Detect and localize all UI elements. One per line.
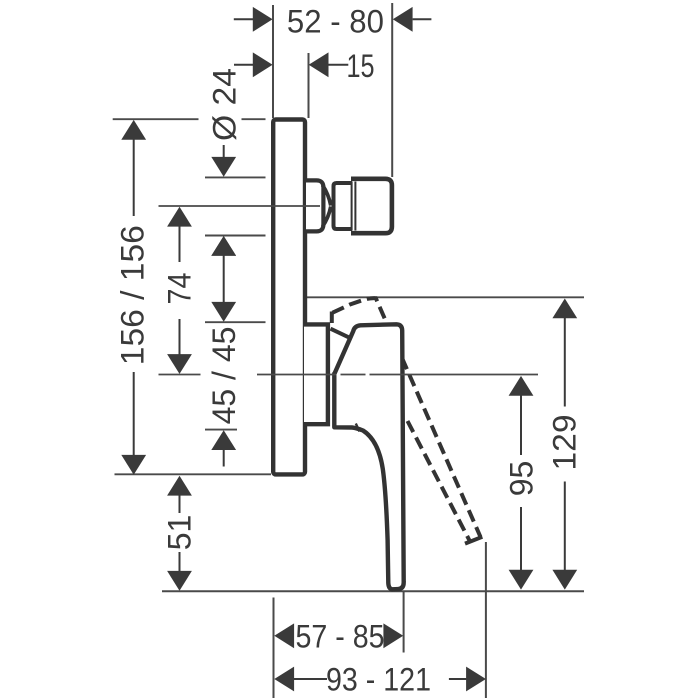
wire: bottom extension handle x=403.6 [403,592,405,653]
svg-text:45 / 45: 45 / 45 [206,327,242,425]
wire: extension line hub bottom y=429.6 [205,429,237,431]
wire: extension line plate front x=308.5 [308,53,310,118]
dimension 57-85 bottom [274,618,403,654]
dimension 95 right [504,376,540,590]
svg-text:156 / 156: 156 / 156 [115,225,151,365]
dimension 15 [234,48,375,84]
diverter knob base flange [306,180,323,231]
node: knob centerline y=206 [159,205,321,207]
svg-text:74: 74 [162,273,198,305]
lever handle neck lower edge [331,329,351,339]
lever handle body (lowered, solid) [334,324,403,589]
dimension 93-121 bottom [274,662,486,698]
svg-text:93 - 121: 93 - 121 [326,662,431,698]
dimension 52-80 top [234,3,432,39]
wire: extension line plate top y=119 [113,118,199,120]
wire: extension line knob bottom y=235.5 [205,235,266,237]
diverter knob cap inner lines [351,182,353,231]
dimension 51 [162,476,198,591]
svg-text:Ø 24: Ø 24 [207,68,243,141]
wire: extension line hub top y=322.2 [205,321,266,323]
diverter knob ring [334,183,353,229]
svg-text:57 - 85: 57 - 85 [296,618,385,654]
wire: bottom extension raised handle tip x=485.9 [485,542,487,698]
dimension 129 right [547,299,583,590]
lever handle dashed raised position outline [332,298,481,540]
wire: extension line knob top y=177.4 [205,176,266,178]
wire: extension line plate bottom y=474.3 [115,473,272,475]
lever handle dashed tip cap [465,537,482,544]
dimension 74 [162,207,198,374]
escutcheon wall plate (side view) [273,120,305,475]
svg-text:15: 15 [347,48,375,84]
diverter knob neck pinch [323,185,331,227]
diverter knob cap [353,177,394,236]
svg-text:95: 95 [504,461,540,497]
svg-text:52 - 80: 52 - 80 [287,3,384,39]
node: cartridge axis centerline y=374.5 [159,374,539,376]
dimension 45/45 [206,236,242,467]
wire: extension line knob face x=392 [391,3,393,177]
wire: bottom extension wall x=273.5 [273,598,275,699]
lever handle hub sleeve [304,324,328,424]
wire: extension line wall left x=273 [272,5,274,118]
dimension 156/156 left [115,120,151,475]
lever handle parting tick [356,424,360,432]
wire: extension line raised handle top y=297.3 [306,296,584,298]
dimension diameter 24 [207,68,243,303]
svg-text:51: 51 [162,515,198,551]
svg-text:129: 129 [547,415,583,471]
wire: bottom datum line y=591.2 [162,590,584,592]
